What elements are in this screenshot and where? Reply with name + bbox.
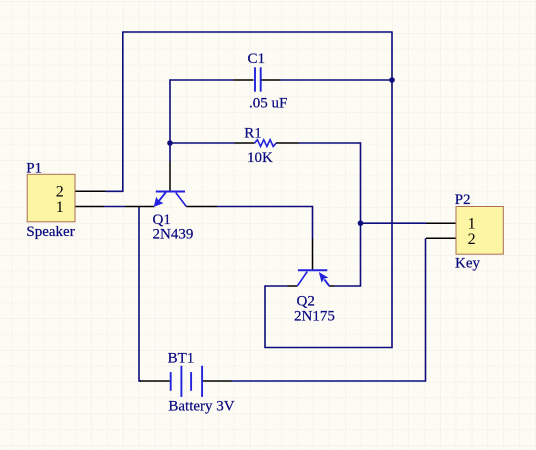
- wire top horizontal: [122, 31, 392, 33]
- svg-text:BT1: BT1: [168, 351, 195, 367]
- svg-text:Key: Key: [455, 256, 480, 272]
- svg-text:2N439: 2N439: [153, 227, 194, 243]
- R1 left pin: [235, 142, 255, 144]
- P1 pin 1 lead: [75, 206, 104, 208]
- svg-text:1: 1: [56, 199, 64, 216]
- P2 pin 1 lead: [426, 222, 456, 224]
- wire battery left lead: [138, 380, 141, 382]
- Q2 base bar: [298, 269, 327, 271]
- svg-text:10K: 10K: [247, 150, 273, 166]
- Q1 emitter arrow: [154, 197, 164, 207]
- wire R1 left: [170, 142, 235, 144]
- Q2 emitter line: [324, 279, 329, 286]
- Q1 emitter line: [159, 192, 166, 201]
- wire Q2 base drop: [312, 206, 314, 239]
- connector P1 body: [27, 174, 75, 222]
- BT1 left pin: [140, 380, 170, 382]
- wire left riser: [122, 32, 124, 192]
- transistor Q2: [297, 270, 329, 286]
- R1 right pin: [276, 142, 299, 144]
- wire C1 left lead: [170, 79, 234, 81]
- Q2 collector line: [297, 272, 307, 287]
- wire Q1 base riser: [169, 79, 171, 161]
- Q2 emitter arrow: [319, 272, 329, 283]
- Q1 base pin: [169, 162, 171, 191]
- wire C1 right to junction: [281, 79, 393, 81]
- Q1 collector pin: [186, 206, 217, 208]
- BT1 short plate 2: [190, 372, 192, 391]
- svg-text:Speaker: Speaker: [26, 224, 74, 240]
- resistor R1 zigzag: [255, 140, 277, 147]
- BT1 short plate 1: [170, 372, 172, 391]
- C1 left pin: [234, 79, 254, 81]
- BT1 tall plate 1: [180, 366, 182, 397]
- wire Q1 collector to Q2 base corner: [217, 206, 313, 208]
- wire P1 pin2 to left riser: [106, 190, 123, 192]
- transistor Q1: [154, 192, 187, 207]
- wire P1 pin1 to Q1 emitter: [104, 206, 125, 208]
- svg-text:Battery 3V: Battery 3V: [168, 399, 234, 415]
- BT1 right pin: [202, 380, 232, 382]
- C1 right pin: [262, 79, 281, 81]
- svg-text:2N175: 2N175: [294, 309, 335, 325]
- wire right drop to C1 junction: [391, 31, 393, 80]
- svg-text:P2: P2: [455, 192, 471, 208]
- wire junction to P2 pin1: [361, 222, 427, 224]
- wire battery drop: [138, 207, 140, 382]
- BT1 tall plate 2: [201, 366, 203, 397]
- wire battery right to riser: [232, 380, 426, 382]
- wire R1 right: [299, 142, 361, 144]
- Q2 collector pin: [288, 285, 298, 287]
- Q1 collector line: [176, 193, 187, 207]
- svg-text:C1: C1: [248, 51, 266, 67]
- wire Q2 collector left: [265, 285, 288, 287]
- svg-text:R1: R1: [244, 126, 262, 142]
- capacitor C1 plates: [255, 67, 261, 91]
- Q2 base pin: [312, 239, 314, 270]
- P1 pin 2 lead: [75, 190, 106, 192]
- junction at R1 left / Q1 base: [167, 140, 173, 146]
- Q1 base bar: [156, 191, 185, 193]
- battery BT1: [171, 366, 202, 397]
- svg-text:.05 uF: .05 uF: [249, 95, 287, 111]
- svg-text:P1: P1: [26, 161, 42, 177]
- svg-text:2: 2: [56, 183, 64, 200]
- Q2 emitter pin: [329, 285, 334, 287]
- P2 pin 2 lead: [426, 237, 456, 239]
- wire riser to P2 pin2: [425, 238, 427, 381]
- wire to Q2 emitter: [334, 285, 361, 287]
- wire left drop to bottom loop: [264, 285, 266, 347]
- junction at C1 right: [389, 77, 395, 83]
- connector P2 body: [456, 207, 503, 255]
- wire loop riser to C1 junction: [391, 80, 393, 348]
- svg-text:Q2: Q2: [297, 294, 315, 310]
- wire bottom loop: [264, 347, 392, 349]
- Q1 emitter pin: [125, 206, 155, 208]
- wire right riser R1 to Q2 emitter: [360, 142, 362, 286]
- junction at R1 riser / P2 pin1 wire: [358, 220, 364, 226]
- svg-text:2: 2: [468, 231, 476, 248]
